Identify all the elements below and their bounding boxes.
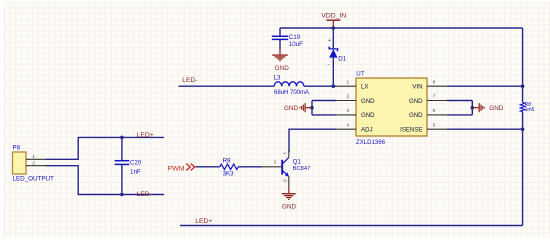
diode D1 (schottky) (327, 38, 346, 68)
net label LED+ (bottom rail) (195, 218, 212, 225)
wire: ISENSE pin to right rail (447, 128, 523, 130)
svg-text:3: 3 (282, 179, 288, 182)
svg-text:68uH 700mA: 68uH 700mA (274, 90, 309, 96)
svg-text:GND: GND (489, 105, 503, 112)
pin 4 ADJ (336, 122, 373, 133)
svg-text:1: 1 (32, 154, 35, 160)
svg-text:2: 2 (347, 94, 350, 100)
svg-text:ZXLD1366: ZXLD1366 (356, 140, 386, 146)
wire: D1 anode to LX node (332, 58, 334, 87)
svg-text:6: 6 (433, 108, 436, 114)
wire: right GND vertical tie (471, 101, 473, 115)
pin 7 GND (409, 94, 447, 105)
junction: left GND tie (310, 106, 314, 110)
svg-text:GND: GND (284, 105, 298, 112)
svg-text:2: 2 (32, 160, 35, 166)
ground: right of U7 (472, 103, 503, 112)
svg-text:ADJ: ADJ (361, 127, 373, 134)
resistor R8 (520, 102, 534, 113)
transistor Q1 BC847 (274, 150, 311, 188)
wire: C19 branch from top rail (279, 28, 281, 36)
capacitor C19 10uF (272, 34, 303, 48)
svg-text:VIN: VIN (412, 84, 422, 91)
net label LED- (inductor input) (182, 77, 197, 84)
connector P8 LED_OUTPUT (13, 144, 55, 182)
svg-text:D1: D1 (338, 56, 346, 63)
svg-text:2: 2 (274, 159, 277, 165)
svg-text:R9: R9 (223, 158, 231, 165)
wire: LED- to inductor (179, 85, 275, 87)
svg-text:ISENSE: ISENSE (400, 127, 422, 134)
pin 2 GND (336, 94, 375, 105)
svg-text:7: 7 (433, 94, 436, 100)
net label LED+ (P8) (137, 132, 154, 139)
svg-text:VDD_IN: VDD_IN (321, 12, 346, 19)
ground: below C19 (272, 49, 289, 72)
svg-text:P8: P8 (13, 144, 21, 151)
pin 5 ISENSE (400, 122, 447, 133)
svg-text:-: - (327, 61, 329, 68)
wire: VIN pin to right rail (447, 85, 523, 87)
pin 3 GND (336, 108, 375, 119)
wire: top VDD_IN rail (280, 27, 523, 29)
svg-text:L3: L3 (274, 74, 281, 81)
wire: C20 top lead (121, 137, 123, 160)
wire: P8 pin2 to LED- (46, 166, 164, 195)
ground: below Q1 emitter (282, 188, 297, 210)
wire: pin2 to left GND net (312, 100, 336, 102)
pin 8 VIN (412, 79, 447, 90)
junction: ISENSE on right rail (521, 127, 525, 131)
svg-text:1m5: 1m5 (525, 107, 535, 113)
power port VDD_IN (321, 12, 346, 28)
wire: P8 pin1 to LED+ (46, 137, 164, 159)
resistor R9 3K3 (220, 158, 238, 178)
wire: VDD junction to D1 cathode (332, 28, 334, 48)
svg-text:GND: GND (361, 98, 375, 105)
pin: Q1 base stub (262, 166, 282, 168)
capacitor C20 1nF (115, 160, 142, 176)
svg-text:LED+: LED+ (137, 132, 154, 139)
junction: C20 top (120, 136, 124, 140)
svg-text:4: 4 (347, 122, 350, 128)
svg-text:1: 1 (347, 79, 350, 85)
ground: left of U7 (284, 103, 312, 112)
svg-text:1nF: 1nF (130, 169, 141, 176)
pin 1 of P8 (26, 154, 46, 160)
svg-text:Q1: Q1 (293, 159, 302, 166)
wire: pin7 to right GND net (447, 100, 472, 102)
wire: C19 to GND (279, 40, 281, 49)
inductor L3 68uH 700mA (274, 74, 309, 96)
junction: D1/L3/LX node (332, 84, 336, 88)
junction: VIN on right rail (521, 84, 525, 88)
svg-text:U7: U7 (356, 70, 364, 77)
junction: VDD_IN on top rail (332, 26, 336, 30)
svg-text:5: 5 (433, 122, 436, 128)
svg-text:GND: GND (409, 98, 423, 105)
wire: PWM to R9 (196, 166, 220, 168)
wire: pin6 to right GND net (447, 114, 472, 116)
svg-text:LED_OUTPUT: LED_OUTPUT (13, 176, 55, 183)
junction: right GND tie (471, 106, 475, 110)
wire: inductor to LX pin (304, 85, 336, 87)
wire: right vertical rail (top to R8) (522, 28, 524, 102)
svg-text:+: + (328, 38, 331, 44)
net label LED- (P8) (137, 191, 152, 198)
op-amp U7 ZXLD1366 body (356, 70, 427, 145)
svg-text:8: 8 (433, 79, 436, 85)
svg-text:LX: LX (361, 84, 368, 91)
svg-text:GND: GND (361, 112, 375, 119)
svg-text:3K3: 3K3 (223, 171, 235, 178)
pin 6 GND (409, 108, 447, 119)
svg-text:10uF: 10uF (289, 41, 303, 48)
svg-text:GND: GND (282, 203, 296, 210)
svg-text:LED-: LED- (137, 191, 152, 198)
wire: pin3 to left GND net (312, 114, 336, 116)
svg-text:BC847: BC847 (293, 166, 311, 172)
svg-text:LED-: LED- (182, 77, 197, 84)
svg-text:1: 1 (282, 152, 288, 155)
wire: right vertical rail (R8 to bottom corner) (522, 112, 524, 226)
svg-text:PWM: PWM (168, 165, 185, 172)
pin 1 LX (336, 79, 368, 90)
wire: bottom LED+ rail (180, 225, 523, 227)
svg-text:GND: GND (409, 112, 423, 119)
svg-text:C20: C20 (130, 160, 142, 167)
wire: C20 bottom lead (121, 165, 123, 195)
wire: ADJ pin to Q1 collector (289, 129, 336, 152)
port PWM (168, 164, 195, 173)
svg-text:GND: GND (275, 65, 289, 72)
svg-text:LED+: LED+ (195, 218, 212, 225)
junction: C20 bottom (120, 193, 124, 197)
wire: left GND vertical tie (311, 101, 313, 115)
wire: R9 to Q1 base (238, 166, 262, 168)
svg-text:3: 3 (347, 108, 350, 114)
pin 2 of P8 (26, 160, 46, 166)
